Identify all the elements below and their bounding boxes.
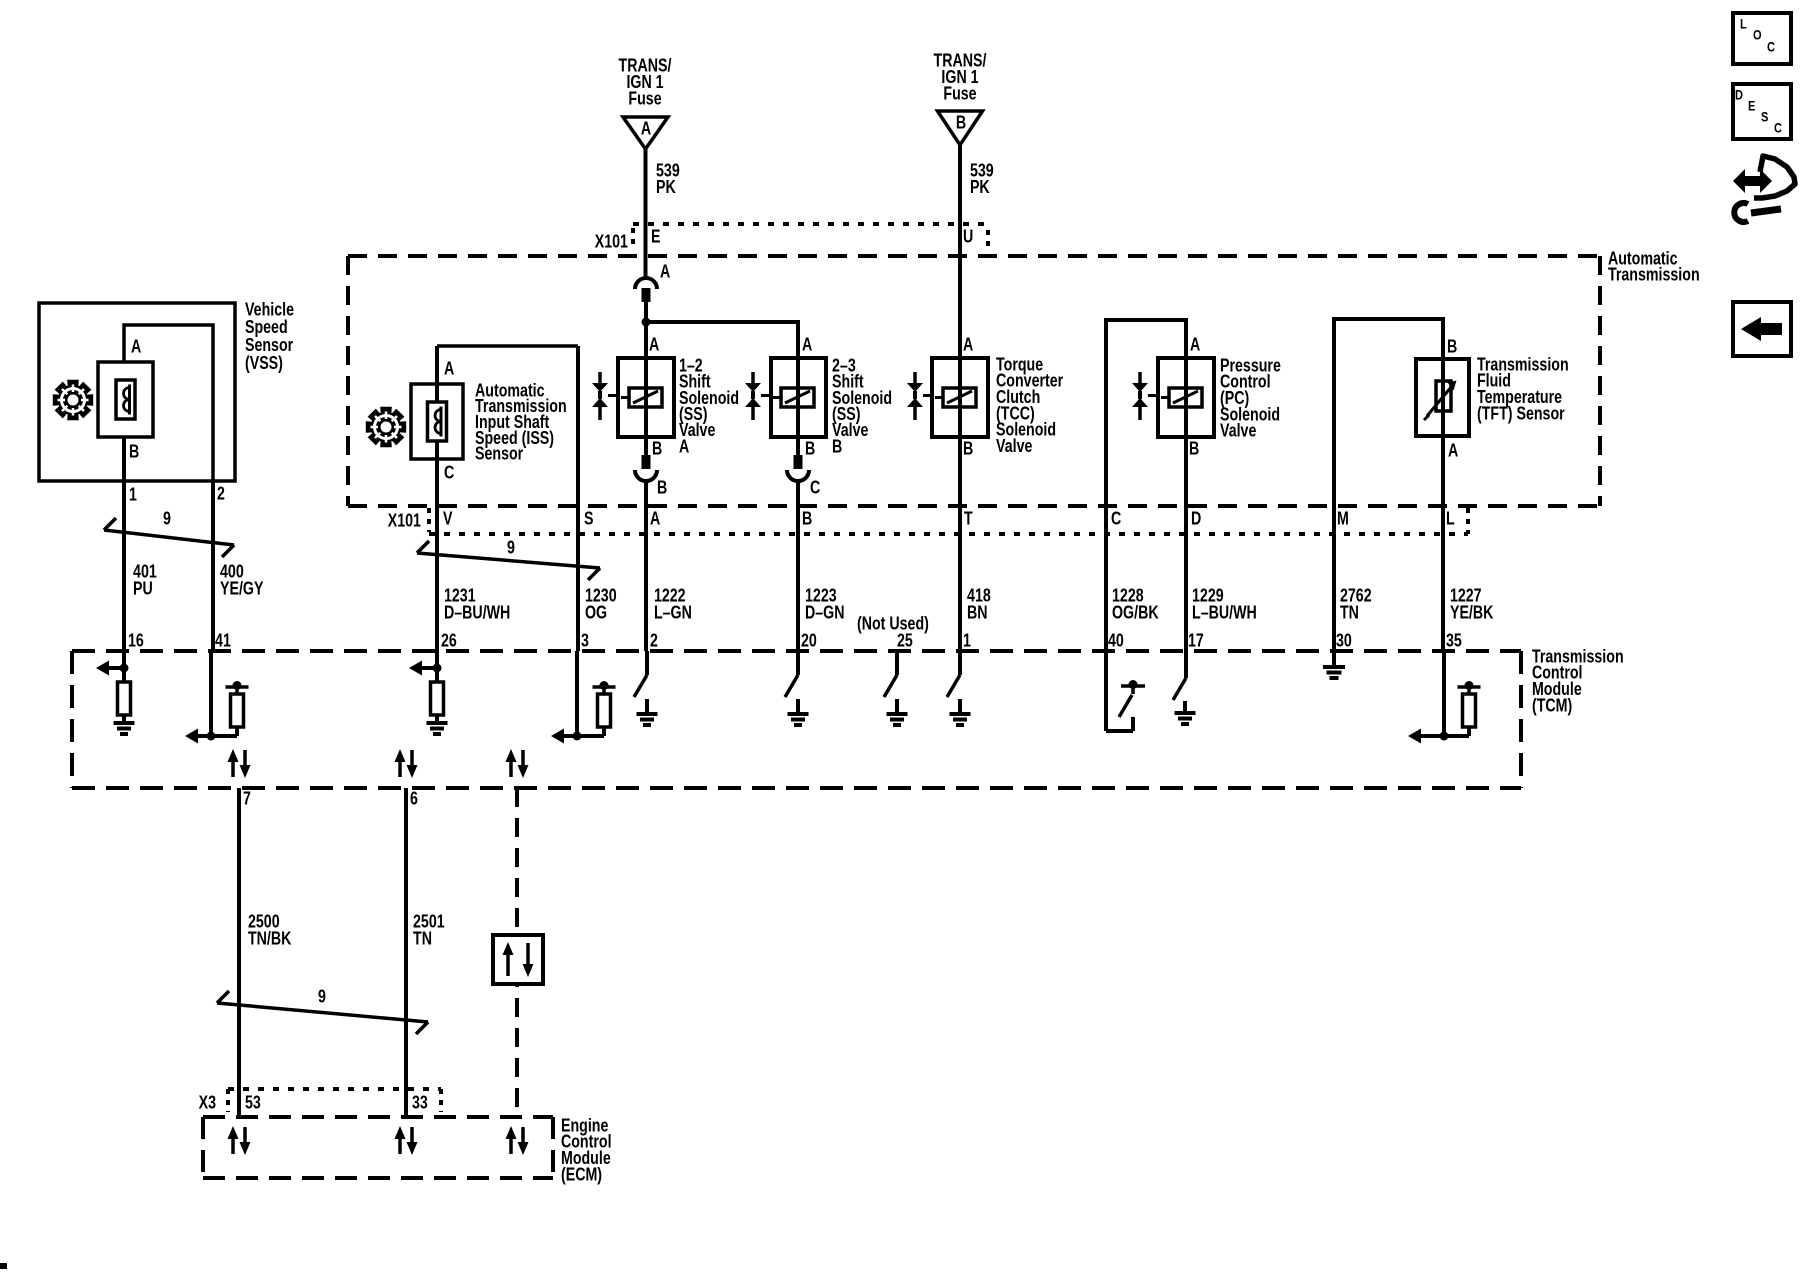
VSS wire B segment (122, 437, 126, 481)
TCM pin16 input: junction+arrow (96, 651, 129, 676)
wire through TFT sensor (1441, 319, 1445, 651)
pin 7 label (TCM) (243, 789, 251, 809)
junction solenoid feed (642, 318, 651, 327)
svg-text:7: 7 (243, 789, 251, 809)
svg-text:X101: X101 (388, 511, 421, 531)
VSS sensor element (98, 362, 153, 437)
svg-text:T: T (964, 509, 973, 529)
svg-text:TN: TN (1340, 603, 1359, 623)
ECM serial data arrows 1 (228, 1126, 251, 1155)
pin letter L (X101) (1446, 509, 1455, 529)
svg-text:Fuse: Fuse (628, 89, 661, 109)
TCM serial data arrows 1 (228, 749, 251, 778)
TCM pin35 wire+junction (1408, 651, 1449, 744)
svg-text:B: B (805, 439, 815, 459)
svg-text:26: 26 (441, 631, 457, 651)
svg-text:U: U (963, 227, 973, 247)
svg-text:D–BU/WH: D–BU/WH (444, 603, 510, 623)
svg-text:1: 1 (963, 631, 971, 651)
svg-text:B: B (832, 437, 842, 457)
svg-text:V: V (443, 509, 453, 529)
ISS sensor element (411, 384, 463, 459)
label Automatic Transmission (1608, 249, 1700, 285)
svg-text:D: D (1735, 87, 1743, 103)
wire VSS pin 2 to TCM (211, 481, 215, 651)
TCM pin3 wire+junction (551, 651, 582, 744)
connector X101 (bottom) dotted line (429, 508, 1468, 534)
svg-text:X3: X3 (199, 1093, 216, 1113)
TCM pin40 high-side switch (1106, 651, 1145, 731)
PC valve bowtie (1132, 372, 1158, 420)
pin 20 label (TCM) (801, 631, 817, 651)
wire PC A jumper (1104, 318, 1188, 651)
svg-text:2: 2 (217, 484, 225, 504)
button back arrow (1733, 302, 1791, 356)
pin A label (2-3 SS) (802, 335, 813, 355)
transmission control module dashed box (72, 651, 1521, 788)
wire VSS pin 1 to TCM (122, 481, 126, 651)
wire through PC solenoid (1184, 320, 1188, 651)
svg-text:(TFT) Sensor: (TFT) Sensor (1477, 404, 1565, 424)
pin C label (ISS) (444, 463, 455, 483)
fuse A TRANS/IGN 1 (623, 117, 668, 149)
svg-text:53: 53 (245, 1093, 261, 1113)
pin A label (TFT) (1448, 441, 1459, 461)
svg-text:3: 3 (581, 631, 589, 651)
serial data symbol box (493, 935, 543, 984)
svg-text:35: 35 (1446, 631, 1462, 651)
harness crossing arrow (ISS pair) (417, 541, 600, 580)
label 2-3 Shift Solenoid (832, 356, 892, 457)
svg-text:E: E (1748, 98, 1755, 114)
wire 2501 TN (404, 788, 408, 1117)
TCM pin30 internal ground (1323, 651, 1345, 678)
1-2 SS valve bowtie (592, 372, 618, 420)
pin letter A (X101) (650, 509, 661, 529)
svg-text:B: B (129, 442, 139, 462)
TCM pin41 pullup resistor (211, 688, 244, 736)
svg-text:9: 9 (318, 987, 326, 1007)
vehicle speed sensor (VSS) box (39, 303, 235, 481)
serial data dashed wire (515, 788, 519, 1117)
pin 3 label (581, 631, 589, 651)
TCM pin35 pullup resistor (1444, 688, 1476, 736)
svg-text:A: A (649, 335, 660, 355)
wire ISS pin A return (576, 346, 580, 651)
TCM pin16 pulldown resistor (118, 668, 131, 715)
2-3 SS valve bowtie (745, 372, 771, 420)
svg-text:C: C (810, 478, 821, 498)
label 9 (ECM pair) (318, 987, 326, 1007)
pin 17 label (TCM) (1188, 631, 1204, 651)
svg-text:C: C (1767, 39, 1775, 55)
wire ISS pin C/V (435, 346, 439, 651)
ISS sensor top edge (437, 344, 578, 348)
svg-text:B: B (1447, 337, 1457, 357)
wire 539 PK to 1-2 solenoid (644, 302, 648, 358)
pin 1 label (TCM) (963, 631, 971, 651)
svg-text:(VSS): (VSS) (245, 353, 283, 373)
svg-text:B: B (802, 509, 812, 529)
pin U label (963, 227, 973, 247)
svg-text:A: A (802, 335, 813, 355)
svg-text:9: 9 (507, 538, 515, 558)
pin 16 label (128, 631, 144, 651)
svg-text:(ECM): (ECM) (561, 1165, 602, 1185)
pin A label (ISS) (444, 359, 455, 379)
label PC solenoid (1220, 356, 1281, 441)
svg-text:A: A (1448, 441, 1459, 461)
TCC solenoid valve box (932, 358, 988, 437)
TCM pin41 supply tap (226, 681, 249, 690)
pin letter B (X101) (802, 509, 812, 529)
wire label 1223 D-GN (805, 586, 845, 623)
pin letter T (X101) (964, 509, 973, 529)
2-3 shift solenoid valve box (771, 358, 826, 437)
svg-text:Valve: Valve (1220, 421, 1256, 441)
svg-text:16: 16 (128, 631, 144, 651)
wire label 400 YE/GY (220, 562, 264, 599)
TCM pin2 driver switch to ground (634, 651, 658, 725)
TCM pin3 pullup resistor (577, 688, 611, 736)
svg-text:E: E (651, 227, 661, 247)
svg-text:PK: PK (656, 177, 676, 197)
wire 2-3 SS to TCM pin 20 (796, 480, 800, 651)
pin 25 label (TCM) (897, 631, 913, 651)
wire branch to 2-3 solenoid (646, 320, 798, 358)
svg-text:9: 9 (163, 509, 171, 529)
ECM serial data arrows 3 (506, 1126, 529, 1155)
svg-text:X101: X101 (595, 232, 628, 252)
label 9 (ISS pair) (507, 538, 515, 558)
pin B label (1-2 SS) (652, 439, 662, 459)
svg-text:40: 40 (1108, 631, 1124, 651)
TCM serial data arrows 3 (506, 749, 529, 778)
svg-text:L–GN: L–GN (654, 603, 692, 623)
wire label 1230 OG (585, 586, 617, 623)
pin 6 label (TCM) (410, 789, 418, 809)
svg-text:OG/BK: OG/BK (1112, 603, 1159, 623)
svg-text:B: B (956, 113, 966, 133)
TCM pin26 input: junction+arrow (409, 651, 442, 676)
svg-text:Transmission: Transmission (1608, 265, 1700, 285)
wire label 1227 YE/BK (1450, 586, 1494, 623)
label ECM (561, 1116, 612, 1185)
label 1-2 Shift Solenoid (679, 356, 739, 457)
svg-text:A: A (641, 119, 652, 139)
svg-text:2: 2 (650, 631, 658, 651)
TCM pin26 ground (427, 715, 448, 734)
svg-text:Fuse: Fuse (943, 84, 976, 104)
svg-text:YE/GY: YE/GY (220, 579, 264, 599)
TCM pin35 supply tap (1458, 681, 1481, 690)
svg-text:41: 41 (215, 631, 231, 651)
TCM pin41 wire+junction (185, 651, 216, 744)
label TFT sensor (1477, 355, 1569, 424)
pin A label (PC) (1190, 335, 1201, 355)
engine control module dashed box (203, 1117, 553, 1178)
wire label 539 PK (B) (970, 161, 994, 198)
svg-text:PK: PK (970, 177, 990, 197)
wire through TCC solenoid (958, 358, 962, 651)
svg-text:B: B (652, 439, 662, 459)
svg-text:A: A (650, 509, 661, 529)
wire 539 PK (fuse B) (958, 145, 962, 358)
connector X101 (top) dotted line (633, 224, 988, 252)
pin 2 label (TCM) (650, 631, 658, 651)
svg-text:TN/BK: TN/BK (248, 929, 292, 949)
svg-text:B: B (963, 439, 973, 459)
svg-text:OG: OG (585, 603, 607, 623)
PC solenoid valve box (1158, 358, 1214, 437)
pin 40 label (TCM) (1108, 631, 1124, 651)
page corner mark (0, 1263, 7, 1269)
wire TFT B jumper (1332, 317, 1445, 651)
pin 33 label (ECM) (412, 1093, 428, 1113)
wire label 1231 D-BU/WH (444, 586, 510, 623)
TCC valve bowtie (907, 372, 932, 420)
icon data-link wrench (1733, 156, 1795, 222)
pin B label (2-3 SS) (805, 439, 815, 459)
pin B label (TCC) (963, 439, 973, 459)
svg-text:S: S (584, 509, 594, 529)
svg-text:Sensor: Sensor (475, 444, 524, 464)
1-2 shift solenoid valve box (618, 358, 674, 437)
wire label 539 PK (A) (656, 161, 680, 198)
svg-text:D: D (1191, 509, 1202, 529)
label Not Used (857, 614, 929, 634)
svg-text:6: 6 (410, 789, 418, 809)
svg-text:(Not Used): (Not Used) (857, 614, 929, 634)
pin B label (PC) (1189, 439, 1199, 459)
svg-text:C: C (1111, 509, 1122, 529)
svg-text:D–GN: D–GN (805, 603, 845, 623)
svg-text:O: O (1753, 27, 1762, 43)
svg-text:PU: PU (133, 579, 153, 599)
wire through 2-3 SS (796, 358, 800, 437)
TCM serial data arrows 2 (395, 749, 418, 778)
label TRANS/IGN 1 Fuse (A) (619, 56, 672, 109)
harness crossing arrow (ECM pair) (217, 991, 428, 1034)
TCM pin16 ground (114, 715, 135, 734)
svg-text:(TCM): (TCM) (1532, 696, 1572, 716)
inline connector B (1-2 SS) (635, 455, 667, 498)
svg-text:C: C (1774, 120, 1782, 136)
pin 35 label (TCM) (1446, 631, 1462, 651)
svg-text:30: 30 (1336, 631, 1352, 651)
TCM pin25 unused switch to ground (884, 653, 908, 725)
pin 41 label (215, 631, 231, 651)
ISS gear icon (366, 407, 406, 447)
pin 53 label (ECM) (245, 1093, 261, 1113)
TCM pin1 driver switch to ground (947, 651, 971, 725)
svg-text:L–BU/WH: L–BU/WH (1192, 603, 1257, 623)
svg-text:C: C (444, 463, 455, 483)
svg-text:BN: BN (967, 603, 988, 623)
TFT sensor box (1416, 359, 1469, 436)
pin B label (TFT) (1447, 337, 1457, 357)
pin B label (VSS) (129, 442, 139, 462)
label X3 (199, 1093, 216, 1113)
pin letter V (X101) (443, 509, 453, 529)
pin 30 label (TCM) (1336, 631, 1352, 651)
pin 2 label (VSS) (217, 484, 225, 504)
svg-text:1: 1 (129, 485, 137, 505)
label ISS sensor (475, 381, 567, 464)
svg-text:B: B (1189, 439, 1199, 459)
wire through 1-2 SS (644, 358, 648, 437)
svg-text:L: L (1740, 16, 1747, 32)
svg-text:Valve: Valve (996, 436, 1032, 456)
label TCM (1532, 647, 1624, 716)
pin A label (TCC) (963, 335, 974, 355)
button LOC (1733, 13, 1791, 64)
svg-text:A: A (660, 262, 671, 282)
automatic transmission dashed box (348, 256, 1600, 506)
label 9 (VSS pair) (163, 509, 171, 529)
svg-text:M: M (1337, 509, 1349, 529)
pin A label (1-2 SS) (649, 335, 660, 355)
svg-text:B: B (657, 478, 667, 498)
svg-text:A: A (679, 437, 690, 457)
pin E label (651, 227, 661, 247)
svg-text:20: 20 (801, 631, 817, 651)
wire label 1229 L-BU/WH (1192, 586, 1257, 623)
label TRANS/IGN 1 Fuse (B) (934, 51, 987, 104)
wire 2500 TN/BK (237, 788, 241, 1117)
wire 1-2 SS to TCM pin 2 (644, 480, 648, 651)
VSS gear icon (53, 380, 93, 420)
pin letter S (X101) (584, 509, 594, 529)
harness crossing arrow (VSS pair) (104, 518, 234, 557)
wire label 2501 TN (413, 912, 445, 949)
wire label 1222 L-GN (654, 586, 692, 623)
wire label 418 BN (967, 586, 991, 623)
connector X3 dotted line (228, 1089, 441, 1112)
button DESC (1733, 84, 1791, 139)
svg-text:A: A (963, 335, 974, 355)
label X101 (top) (595, 232, 628, 252)
svg-text:YE/BK: YE/BK (1450, 603, 1494, 623)
pin letter C (X101) (1111, 509, 1122, 529)
TCM pin20 driver switch to ground (785, 651, 809, 725)
svg-text:17: 17 (1188, 631, 1204, 651)
pin A label (VSS) (131, 337, 142, 357)
pin 1 label (VSS) (129, 485, 137, 505)
wire label 401 PU (133, 562, 157, 599)
svg-text:TN: TN (413, 929, 432, 949)
wire 1-2 SS B to connector (644, 437, 648, 456)
pin letter M (X101) (1337, 509, 1349, 529)
svg-text:A: A (1190, 335, 1201, 355)
pin letter D (X101) (1191, 509, 1202, 529)
wire label 2500 TN/BK (248, 912, 292, 949)
TCM pin17 driver switch to ground (1173, 651, 1196, 724)
inline connector A on 539 PK (635, 262, 670, 302)
wire 539 PK (fuse A) (644, 149, 648, 278)
inline connector C (2-3 SS) (787, 455, 821, 498)
TFT thermistor symbol (1424, 381, 1457, 421)
svg-text:25: 25 (897, 631, 913, 651)
label Vehicle Speed Sensor (VSS) (245, 300, 294, 373)
TCM pin26 pulldown resistor (431, 668, 444, 715)
svg-text:S: S (1761, 109, 1768, 125)
svg-text:A: A (131, 337, 142, 357)
VSS wire A loop (124, 325, 213, 481)
label TCC solenoid (996, 355, 1064, 456)
label X101 (bottom) (388, 511, 421, 531)
svg-text:A: A (444, 359, 455, 379)
TCM pin3 supply tap (593, 681, 616, 690)
svg-text:33: 33 (412, 1093, 428, 1113)
wire label 1228 OG/BK (1112, 586, 1159, 623)
wire 2-3 SS B to connector (796, 437, 800, 456)
fuse B TRANS/IGN 1 (938, 111, 983, 145)
wire label 2762 TN (1340, 586, 1372, 623)
ECM serial data arrows 2 (395, 1126, 418, 1155)
pin 26 label (441, 631, 457, 651)
svg-text:L: L (1446, 509, 1455, 529)
